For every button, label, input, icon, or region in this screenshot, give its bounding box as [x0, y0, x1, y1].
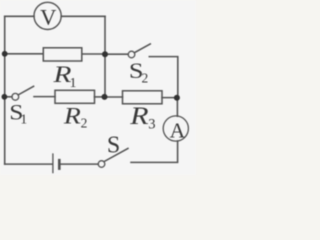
svg-text:A: A — [170, 118, 186, 142]
wire: left rail vertical — [4, 16, 6, 164]
wire: R3 to right vertical — [162, 97, 178, 99]
node: left rail / R1 branch junction — [2, 51, 8, 57]
switch S pivot circle — [98, 161, 105, 168]
switch S1 pivot circle — [12, 93, 19, 100]
wire: top left to voltmeter — [5, 15, 34, 17]
svg-text:S: S — [107, 133, 120, 159]
battery short plate (negative) — [58, 160, 61, 168]
svg-text:R: R — [129, 101, 149, 129]
battery long plate (positive) — [52, 154, 54, 173]
svg-text:V: V — [40, 4, 56, 29]
wire: bottom left to battery — [5, 163, 53, 165]
wire: right vertical to ammeter — [176, 97, 178, 116]
svg-text:1: 1 — [20, 113, 27, 128]
resistor R2 body — [55, 90, 95, 103]
switch S lever — [104, 148, 128, 161]
wire: middle vertical (top corner down to R2 row) — [104, 16, 106, 97]
svg-text:2: 2 — [142, 71, 149, 86]
wire: middle vertical to switch S2 — [105, 53, 128, 55]
node: right vertical / R3 junction — [174, 95, 180, 101]
wire: S1 from left rail to pivot — [4, 96, 12, 98]
wire: R2 to middle vertical — [95, 96, 106, 98]
switch S2 pivot circle — [128, 51, 135, 58]
ammeter circle — [163, 116, 188, 141]
svg-text:2: 2 — [81, 116, 88, 131]
resistor R3 body — [123, 91, 163, 104]
wire: R1 to middle vertical — [83, 53, 106, 55]
svg-text:1: 1 — [70, 76, 77, 91]
wire: voltmeter to top-right corner — [61, 15, 105, 17]
voltmeter U-V circle — [34, 2, 61, 29]
wire: S2 fixed contact to right corner — [149, 57, 178, 98]
wire: R1 row left segment — [5, 53, 43, 55]
wire: middle vertical to R3 — [105, 96, 123, 98]
node: left rail / S1 junction — [2, 94, 8, 100]
resistor R1 body — [43, 48, 82, 61]
svg-text:3: 3 — [148, 117, 155, 133]
node: middle vertical / R2-R3 junction — [102, 94, 108, 100]
wire: S1 fixed contact to R2 — [34, 96, 55, 98]
svg-text:R: R — [63, 102, 81, 129]
wire: ammeter to bottom-right corner — [131, 141, 178, 162]
wire: battery to switch S — [60, 163, 98, 165]
node: middle vertical / R1-S2 junction — [102, 51, 108, 57]
switch S1 lever — [18, 86, 33, 95]
switch S2 lever — [134, 44, 150, 53]
